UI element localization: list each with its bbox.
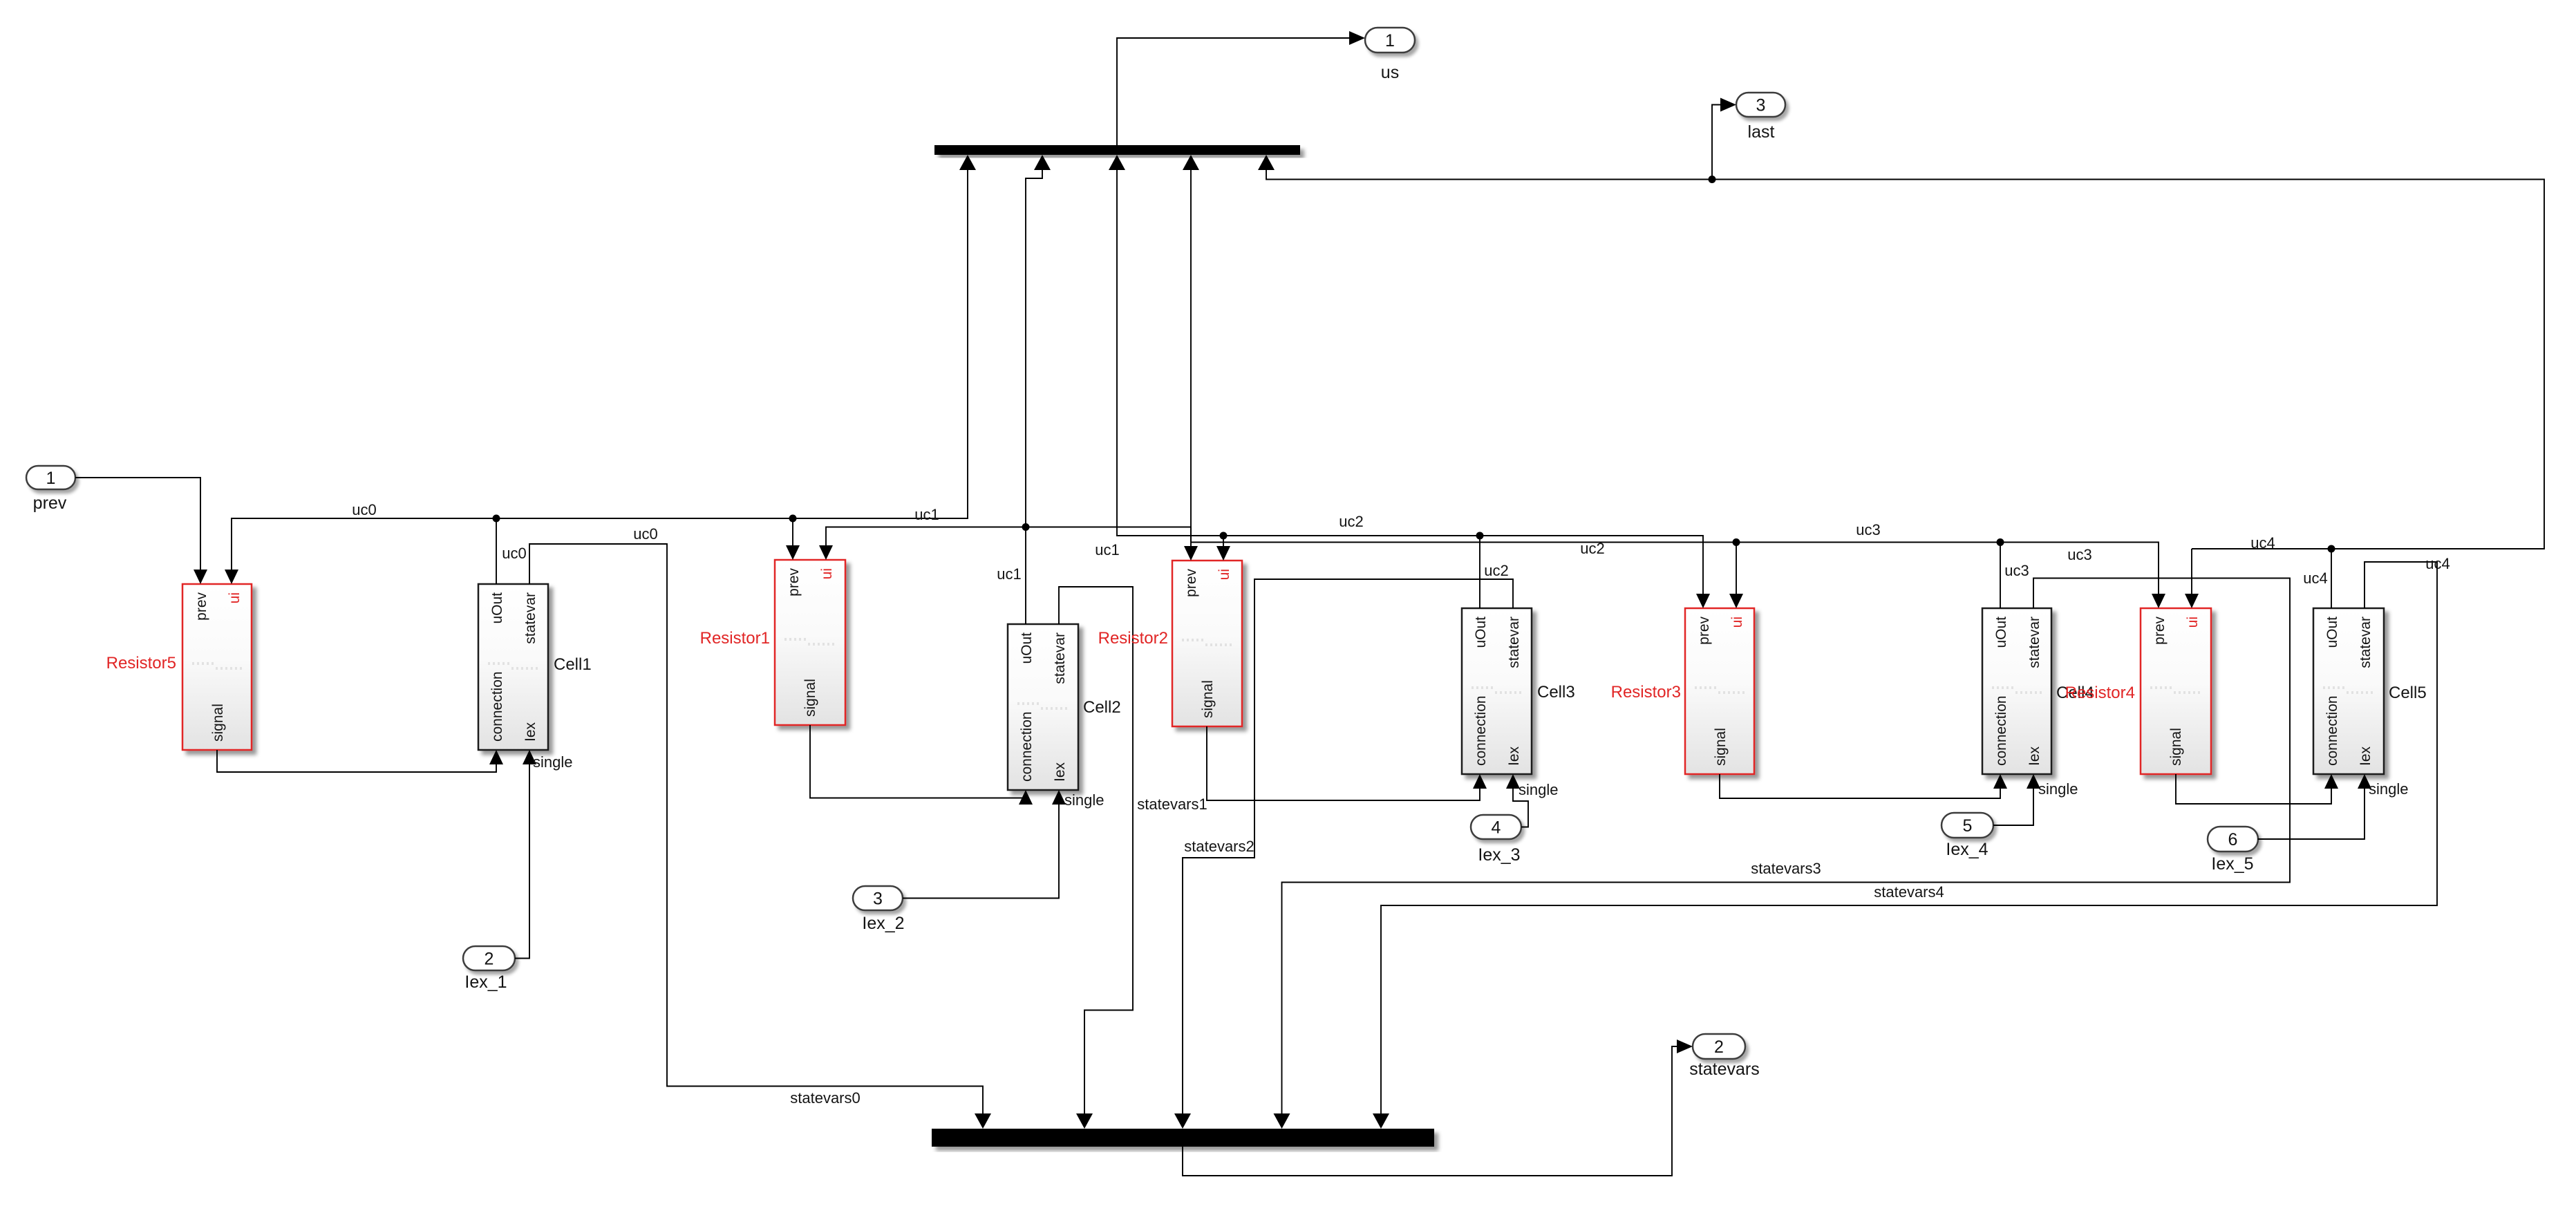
wire arrowhead into Resistor3.prev xyxy=(1696,594,1710,608)
svg-text:uOut: uOut xyxy=(489,592,505,624)
svg-text:statevar: statevar xyxy=(2358,617,2373,668)
wire uc0 drop to Resistor1.prev xyxy=(792,518,793,548)
wire Cell2.uOut up to top mux input 2 (uc1) xyxy=(1026,170,1042,624)
block Cell4 xyxy=(1982,608,2051,774)
wire arrowhead into Cell4.connection xyxy=(1993,774,2007,789)
wire uc0 right branch to top mux input 1 xyxy=(496,170,968,518)
wire uc2 drop to Resistor2.ui xyxy=(1223,536,1224,548)
svg-text:4: 4 xyxy=(1492,818,1501,838)
port inport Iex_5 (6) xyxy=(2208,827,2258,852)
wire uc3 horizontal to Resistor4.prev xyxy=(1191,543,2159,596)
wire Resistor1.signal to Cell2.connection xyxy=(810,725,1026,803)
svg-text:uOut: uOut xyxy=(1473,617,1489,648)
svg-text:Iex_5: Iex_5 xyxy=(2211,854,2253,874)
wire arrowhead into Cell4.Iex xyxy=(2027,774,2040,789)
wire arrowhead into Resistor2.ui xyxy=(1216,546,1230,561)
block Resistor4 xyxy=(2141,608,2211,774)
svg-text:Iex: Iex xyxy=(2027,746,2042,766)
svg-text:ui: ui xyxy=(2185,617,2201,628)
wire uc4 stub up to last outport xyxy=(1712,105,1721,180)
wire uc1 right branch to Resistor2.prev xyxy=(1026,527,1191,549)
svg-text:Cell5: Cell5 xyxy=(2389,684,2427,702)
svg-text:prev: prev xyxy=(33,493,67,513)
svg-text:prev: prev xyxy=(194,592,209,621)
wire arrowhead into Resistor4.ui xyxy=(2185,594,2199,608)
svg-text:6: 6 xyxy=(2228,830,2238,849)
svg-text:Iex: Iex xyxy=(2358,746,2373,766)
svg-text:last: last xyxy=(1748,122,1775,142)
wire Cell2.statevar statevars1 to bottom mux input 2 xyxy=(1059,587,1133,1114)
svg-text:2: 2 xyxy=(485,950,494,969)
wire arrowhead into Resistor4.prev xyxy=(2152,594,2165,608)
wire arrowhead into bottom mux input 1 xyxy=(975,1113,991,1129)
port inport Iex_4 (5) xyxy=(1942,813,1993,838)
wire arrowhead into bottom mux input 4 xyxy=(1274,1113,1290,1129)
svg-text:uc3: uc3 xyxy=(1856,521,1880,538)
wire Cell3.statevar statevars2 to bottom mux input 3 xyxy=(1183,579,1513,1114)
wire arrowhead into Resistor3.ui xyxy=(1729,594,1743,608)
block Cell1 xyxy=(478,584,548,750)
wire uc1 left branch to Resistor1.ui xyxy=(826,527,1026,549)
wire arrowhead into Cell2.Iex xyxy=(1052,790,1066,805)
wire arrowhead into mux input 4 xyxy=(1183,155,1199,170)
wire arrowhead into outport statevars xyxy=(1677,1040,1693,1053)
svg-text:uc1: uc1 xyxy=(997,565,1021,583)
svg-text:uc0: uc0 xyxy=(502,545,526,562)
wire uc3 drop to Resistor3.ui xyxy=(1736,543,1737,596)
wire arrowhead into mux input 3 xyxy=(1109,155,1125,170)
svg-text:ui: ui xyxy=(1216,569,1232,580)
svg-text:prev: prev xyxy=(786,568,802,596)
svg-text:signal: signal xyxy=(1713,728,1729,766)
port outport us (1) xyxy=(1365,28,1415,53)
svg-text:single: single xyxy=(2369,780,2408,798)
block Resistor5 xyxy=(182,584,252,750)
svg-text:Iex_4: Iex_4 xyxy=(1946,840,1988,859)
svg-text:Iex: Iex xyxy=(1052,762,1068,782)
wire Resistor5.signal to Cell1.connection xyxy=(217,750,496,772)
svg-text:uc1: uc1 xyxy=(1095,541,1119,558)
svg-text:Cell1: Cell1 xyxy=(554,655,592,674)
wire uc2 from mux input 3 down, right to Resistor3.prev xyxy=(1117,170,1703,594)
svg-text:statevar: statevar xyxy=(2027,617,2042,668)
port outport statevars (2) xyxy=(1693,1034,1745,1059)
block Cell3 xyxy=(1462,608,1532,774)
svg-text:statevars1: statevars1 xyxy=(1137,796,1207,813)
svg-text:1: 1 xyxy=(46,469,56,488)
svg-text:1: 1 xyxy=(1385,31,1395,50)
svg-text:uc4: uc4 xyxy=(2250,534,2275,552)
port outport last (3) xyxy=(1736,93,1785,117)
svg-text:Cell3: Cell3 xyxy=(1537,683,1575,702)
svg-text:prev: prev xyxy=(1183,569,1199,597)
wire arrowhead into Cell1.Iex xyxy=(523,750,536,764)
wire arrowhead into bottom mux input 3 xyxy=(1174,1113,1191,1129)
wire Iex_4 to Cell4.Iex xyxy=(1993,787,2033,825)
svg-text:3: 3 xyxy=(873,890,883,909)
wire Resistor3.signal to Cell4.connection xyxy=(1720,774,2000,798)
junction uc2 branch to Resistor2.ui xyxy=(1220,532,1228,540)
svg-text:statevar: statevar xyxy=(523,592,538,644)
svg-text:Resistor3: Resistor3 xyxy=(1611,683,1681,702)
block Cell2 xyxy=(1008,624,1078,790)
svg-text:5: 5 xyxy=(1963,816,1973,836)
wire arrowhead into mux input 5 xyxy=(1258,155,1275,170)
wire arrowhead into bottom mux input 5 xyxy=(1373,1113,1389,1129)
svg-text:uc2: uc2 xyxy=(1580,540,1604,557)
svg-text:uOut: uOut xyxy=(1019,632,1035,664)
junction uc4 at Cell5.uOut xyxy=(2328,545,2335,553)
svg-text:Iex_1: Iex_1 xyxy=(464,972,507,992)
wire top mux output to outport us xyxy=(1117,38,1350,145)
svg-text:ui: ui xyxy=(227,592,243,603)
wire arrowhead into outport last xyxy=(1720,98,1736,112)
svg-text:uc4: uc4 xyxy=(2425,555,2450,572)
port inport Iex_1 (2) xyxy=(463,946,515,970)
svg-text:uc2: uc2 xyxy=(1339,513,1363,530)
junction uc4 branch to last outport xyxy=(1709,176,1716,183)
wire arrowhead into Cell5.connection xyxy=(2324,774,2338,789)
wire arrowhead into mux input 1 xyxy=(959,155,976,170)
svg-text:statevar: statevar xyxy=(1052,632,1068,684)
svg-text:uc2: uc2 xyxy=(1484,562,1508,579)
svg-text:3: 3 xyxy=(1756,96,1766,115)
mux bar bottom (statevars mux) xyxy=(932,1129,1434,1147)
svg-text:statevars2: statevars2 xyxy=(1184,838,1254,855)
svg-text:2: 2 xyxy=(1714,1037,1724,1057)
wire Cell5.statevar statevars4 to bottom mux input 5 xyxy=(1381,562,2437,1114)
svg-text:statevars0: statevars0 xyxy=(790,1089,861,1107)
svg-text:connection: connection xyxy=(1019,711,1035,782)
svg-text:connection: connection xyxy=(2324,695,2340,766)
wire arrowhead into Cell5.Iex xyxy=(2358,774,2371,789)
wire arrowhead into Cell3.connection xyxy=(1473,774,1487,789)
svg-text:uc4: uc4 xyxy=(2303,570,2327,587)
wire Resistor2.signal to Cell3.connection xyxy=(1207,726,1480,800)
port inport prev (1) xyxy=(26,466,75,489)
wire Cell3.uOut up (uc2 source) xyxy=(1479,536,1480,608)
svg-text:Iex_3: Iex_3 xyxy=(1478,845,1520,865)
wire Iex_3 to Cell3.Iex xyxy=(1513,787,1528,827)
svg-text:Resistor5: Resistor5 xyxy=(106,654,176,673)
svg-text:Iex: Iex xyxy=(1506,746,1522,766)
svg-text:signal: signal xyxy=(2168,728,2184,766)
wire arrowhead into Resistor5.prev xyxy=(194,570,207,584)
wire Cell1.statevar statevars0 to bottom mux input 1 xyxy=(529,544,983,1114)
block Resistor1 xyxy=(775,560,845,725)
block Resistor2 xyxy=(1172,561,1242,726)
svg-text:signal: signal xyxy=(210,704,226,742)
wire Resistor4.signal to Cell5.connection xyxy=(2176,774,2331,804)
svg-text:ui: ui xyxy=(1729,617,1745,628)
wire bottom mux output to outport statevars xyxy=(1183,1046,1677,1176)
svg-text:Iex: Iex xyxy=(523,722,538,742)
svg-text:Resistor4: Resistor4 xyxy=(2065,684,2135,702)
svg-text:connection: connection xyxy=(489,671,505,742)
svg-text:Iex_2: Iex_2 xyxy=(862,914,904,933)
junction uc2 at Cell3.uOut xyxy=(1476,532,1484,540)
wire arrowhead into Cell1.connection xyxy=(489,750,503,764)
junction uc3 branch to Resistor3.ui xyxy=(1733,538,1740,546)
wire arrowhead into Resistor5.ui xyxy=(225,570,238,584)
svg-text:connection: connection xyxy=(1993,695,2009,766)
wire arrowhead into Cell3.Iex xyxy=(1506,774,1520,789)
wire arrowhead into Resistor2.prev xyxy=(1184,546,1198,561)
svg-text:uOut: uOut xyxy=(2324,617,2340,648)
wire uc0 left branch to Resistor5.ui xyxy=(232,518,496,572)
svg-text:statevars3: statevars3 xyxy=(1751,860,1821,877)
wire arrowhead into mux input 2 xyxy=(1034,155,1051,170)
svg-text:uc3: uc3 xyxy=(2004,562,2029,579)
wire arrowhead into bottom mux input 2 xyxy=(1076,1113,1093,1129)
wire arrowhead into Resistor1.ui xyxy=(819,545,833,560)
mux bar top (us mux) xyxy=(934,145,1300,155)
svg-text:single: single xyxy=(1519,781,1558,798)
svg-text:signal: signal xyxy=(1200,680,1216,718)
junction uc0 branch to Resistor1.prev xyxy=(789,515,797,523)
wire Iex_5 to Cell5.Iex xyxy=(2258,787,2365,839)
svg-text:connection: connection xyxy=(1473,695,1489,766)
wire Cell4.uOut up (uc3 source) xyxy=(2000,543,2001,609)
svg-text:uOut: uOut xyxy=(1993,617,2009,648)
svg-text:prev: prev xyxy=(1696,617,1712,645)
svg-text:uc3: uc3 xyxy=(2067,546,2091,563)
svg-text:uc0: uc0 xyxy=(352,501,376,518)
wire uc4 right to far right, up, left to top mux input 5 xyxy=(1266,170,2544,549)
svg-text:single: single xyxy=(2038,780,2078,798)
wire Cell5.uOut up (uc4 source) xyxy=(2331,549,2332,608)
svg-text:prev: prev xyxy=(2152,617,2168,645)
svg-text:us: us xyxy=(1381,63,1399,82)
wire arrowhead into outport us xyxy=(1349,31,1365,45)
junction uc1 junction xyxy=(1022,523,1030,531)
port inport Iex_2 (3) xyxy=(853,886,903,910)
svg-text:statevars: statevars xyxy=(1689,1060,1759,1079)
svg-text:single: single xyxy=(533,753,572,771)
wire prev inport to Resistor5.prev xyxy=(75,478,200,572)
wire arrowhead into Cell2.connection xyxy=(1019,790,1033,805)
svg-text:signal: signal xyxy=(802,679,818,717)
block Cell5 xyxy=(2313,608,2384,774)
svg-text:uc1: uc1 xyxy=(914,506,939,523)
wire Cell1.uOut up (uc0 source) xyxy=(496,518,497,584)
svg-text:Resistor2: Resistor2 xyxy=(1098,629,1168,648)
wire uc4 left end down to Resistor4.ui xyxy=(2191,549,2192,596)
wire Iex_1 to Cell1.Iex xyxy=(515,762,529,959)
wire Cell4.statevar statevars3 to bottom mux input 4 xyxy=(1282,579,2291,1115)
svg-text:statevar: statevar xyxy=(1506,617,1522,668)
svg-text:single: single xyxy=(1064,791,1104,809)
junction uc0 at Cell1.uOut xyxy=(493,515,500,523)
block Resistor3 xyxy=(1685,608,1754,774)
svg-text:Cell2: Cell2 xyxy=(1083,698,1121,717)
wire arrowhead into Resistor1.prev xyxy=(786,545,800,560)
junction uc3 at Cell4.uOut xyxy=(1997,538,2004,546)
svg-text:Resistor1: Resistor1 xyxy=(700,629,770,648)
svg-text:ui: ui xyxy=(819,568,835,579)
wire uc3 up to top mux input 4 xyxy=(1190,170,1192,543)
port inport Iex_3 (4) xyxy=(1471,815,1521,839)
svg-text:statevars4: statevars4 xyxy=(1874,883,1944,901)
wire Iex_2 to Cell2.Iex xyxy=(903,803,1059,899)
svg-text:uc0: uc0 xyxy=(633,525,657,543)
